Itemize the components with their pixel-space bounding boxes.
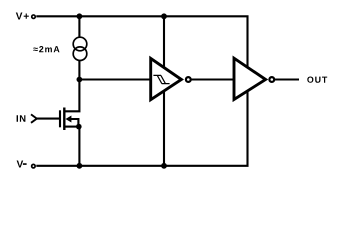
junction dot: top rail / first power vertical <box>161 13 167 19</box>
wire: node A to Schmitt input <box>79 78 152 80</box>
current source I1 (two overlapping circles) <box>73 37 87 60</box>
junction dot: bottom rail / MOSFET source line <box>77 163 83 169</box>
wire: first power vertical (behind Schmitt trigger) <box>163 16 165 166</box>
wire: MOSFET source junction down to V- rail <box>78 127 80 166</box>
wire: V+ top rail with right-side vertical and V- bottom rail <box>36 16 247 166</box>
wire: node A down to MOSFET drain stub <box>64 80 79 112</box>
hysteresis symbol inside U1 <box>153 75 169 83</box>
label: OUT <box>307 77 327 83</box>
transistor Q1: channel bar <box>63 108 65 131</box>
wire: U2 output to OUT <box>274 78 299 80</box>
transistor Q1: source stub <box>64 126 79 128</box>
op-amp U1: Schmitt-trigger inverter triangle <box>151 58 182 99</box>
transistor Q1: bulk arrowhead <box>66 116 72 123</box>
transistor Q1: gate bar <box>59 110 61 127</box>
label: IN <box>17 115 26 121</box>
wire: IN chevron to MOSFET gate <box>37 118 59 120</box>
wire: U1 output to U2 input <box>191 78 234 80</box>
op-amp U2: output buffer triangle <box>234 58 266 99</box>
label: ~2mA current value <box>33 46 59 52</box>
junction dot: node A <box>77 77 83 83</box>
input terminal chevron at IN <box>31 114 37 122</box>
terminal: V+ open circle <box>32 15 36 19</box>
label: V- <box>17 161 27 168</box>
terminal: V- open circle <box>32 164 36 168</box>
junction dot: top rail / current source <box>77 13 83 19</box>
junction dot: bottom rail / first power vertical <box>161 163 167 169</box>
transistor Q1: bulk lead with arrow to source <box>69 119 78 127</box>
junction dot: Q1 source/bulk tie <box>76 124 82 130</box>
wire: left vertical from V+ rail through current source to node A <box>78 16 80 79</box>
inverting bubble of U2 <box>269 77 274 82</box>
label: V+ <box>16 13 29 20</box>
inverting bubble of U1 <box>186 77 191 82</box>
